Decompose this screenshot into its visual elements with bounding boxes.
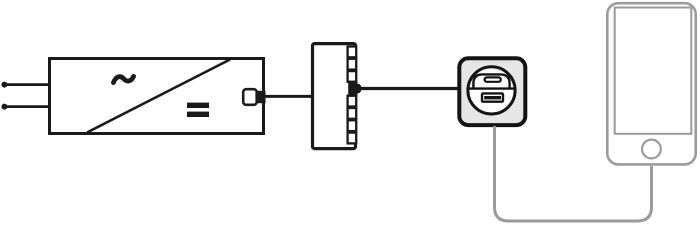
USB-A port <box>482 93 503 101</box>
plug on terminal 4 <box>348 81 361 97</box>
wire distributor to socket <box>359 87 460 90</box>
wire AC input N <box>4 105 51 108</box>
terminal 7 <box>348 120 357 131</box>
distributor block <box>313 44 356 149</box>
terminal dot N <box>1 104 7 110</box>
terminal dot L <box>1 82 7 88</box>
wire AC input L <box>4 83 51 86</box>
module insert outline <box>473 74 509 88</box>
socket round module <box>468 67 515 114</box>
USB wall socket <box>459 58 525 125</box>
terminal 8 <box>348 133 357 144</box>
divider diagonal <box>87 60 230 133</box>
terminal 5 <box>348 96 357 107</box>
converter U1 (AC/DC power supply) <box>50 59 264 134</box>
AC tilde symbol <box>113 76 133 82</box>
terminal 1 <box>348 47 357 58</box>
terminal 3 <box>348 71 357 82</box>
home button <box>642 140 661 159</box>
DC equals symbol <box>187 103 209 108</box>
terminal 2 <box>348 59 357 70</box>
wire converter to distributor <box>264 95 313 98</box>
module divider chord <box>468 87 515 89</box>
charging cable <box>495 126 652 221</box>
phone screen <box>615 8 692 134</box>
connector plug on converter output <box>243 89 257 105</box>
USB-C port <box>485 77 501 81</box>
phone <box>607 3 695 164</box>
terminal 6 <box>348 108 357 119</box>
